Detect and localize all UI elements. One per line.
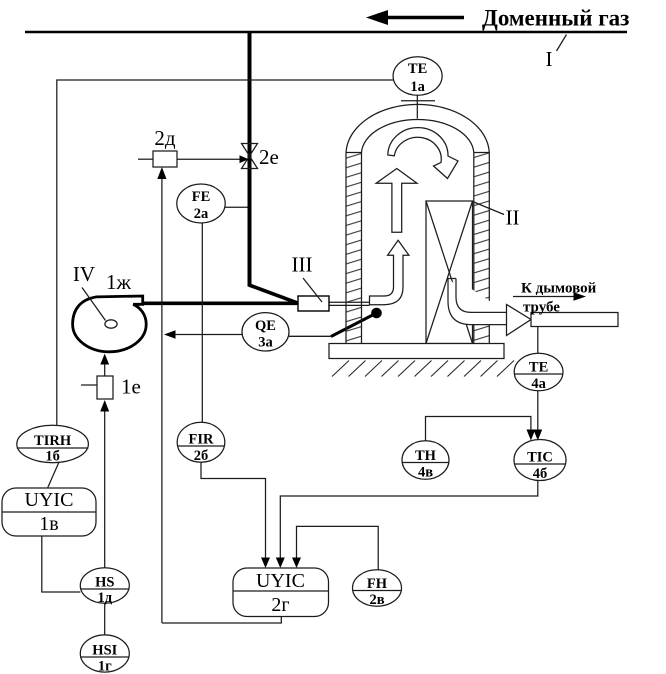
svg-text:UYIC: UYIC	[25, 489, 74, 511]
svg-text:ТН: ТН	[415, 448, 437, 464]
svg-text:1г: 1г	[98, 659, 112, 674]
svg-text:IV: IV	[73, 262, 95, 286]
svg-text:Доменный газ: Доменный газ	[482, 6, 629, 31]
svg-text:FE: FE	[192, 189, 211, 205]
svg-text:FH: FH	[367, 576, 388, 592]
svg-text:1в: 1в	[39, 513, 58, 535]
svg-text:TIRH: TIRH	[34, 433, 72, 449]
svg-text:2г: 2г	[271, 594, 289, 616]
svg-text:HSI: HSI	[92, 643, 117, 659]
svg-text:4а: 4а	[531, 376, 546, 392]
svg-text:К дымовой: К дымовой	[521, 281, 597, 297]
svg-text:ТЕ: ТЕ	[408, 61, 427, 77]
svg-text:1д: 1д	[98, 590, 113, 606]
svg-text:2б: 2б	[194, 448, 209, 464]
svg-text:1е: 1е	[121, 375, 141, 399]
svg-text:1а: 1а	[410, 79, 425, 95]
svg-text:4б: 4б	[533, 466, 548, 482]
svg-text:4в: 4в	[418, 465, 433, 481]
svg-text:FIR: FIR	[189, 432, 215, 448]
svg-text:TIC: TIC	[527, 450, 553, 466]
svg-text:UYIC: UYIC	[256, 570, 305, 592]
svg-text:2д: 2д	[154, 126, 176, 150]
svg-text:QE: QE	[255, 318, 276, 334]
svg-text:I: I	[546, 47, 553, 71]
svg-text:III: III	[292, 253, 313, 277]
svg-text:HS: HS	[95, 575, 114, 591]
svg-text:1б: 1б	[45, 449, 60, 465]
svg-text:трубе: трубе	[523, 300, 560, 316]
svg-text:3а: 3а	[258, 335, 273, 351]
svg-text:2а: 2а	[194, 206, 209, 222]
svg-text:ТЕ: ТЕ	[529, 360, 548, 376]
svg-text:II: II	[506, 206, 520, 230]
svg-text:2в: 2в	[369, 592, 384, 608]
svg-text:1ж: 1ж	[106, 270, 132, 294]
svg-text:2е: 2е	[259, 145, 279, 169]
